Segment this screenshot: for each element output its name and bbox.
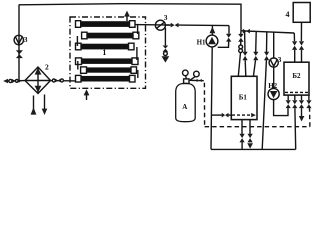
pump H1 [206,35,218,47]
wire radiator outlet to pump line [135,24,171,27]
radiator section bar 6 [76,75,136,82]
tank B1 [231,76,257,119]
wire B1 left drain [212,114,222,116]
valve 3 (circle valve above H2) [269,58,278,67]
tank B2 [284,62,309,95]
air arrow above radiator [124,11,130,21]
drain branch under indicator 3 [162,28,170,63]
radiator section bar 3 [76,43,135,50]
box 4 (condenser) [293,3,310,23]
cylinder regulator [183,70,204,83]
tank B2 right drain into chamber [306,95,311,108]
valve (B2 bottom left) [286,100,291,108]
chamber (dashed enclosure) [204,83,310,127]
node junction at riser and filter line [18,80,21,83]
radiator 1 enclosure (dash-dot box) [70,17,146,88]
coupling (right of filter: circle-bowtie-circle) [51,79,77,83]
wire bottom main line [211,148,296,150]
wire distribution header [241,31,294,33]
wire valve to bypass corner [179,24,230,27]
svg-text:3: 3 [164,13,168,22]
valve (header bowtie) [243,29,250,34]
pump H2 [268,88,279,99]
wire left riser [18,5,20,82]
radiator section bar 2 [82,32,139,39]
valve (B1 left drain bowtie) [222,113,229,118]
air flow arrows under filter [31,95,48,116]
wire pump H2 to tank B2 bottom [274,100,288,116]
wire indicator to valve [165,24,170,26]
coupling (left disconnect: arrow and circles) [3,79,18,84]
wire top header line [19,4,241,31]
wire left horizontal to filter [6,80,25,82]
svg-text:Б2: Б2 [292,72,301,80]
svg-text:3: 3 [24,35,28,44]
valve 3 (left circle valve) [14,35,23,44]
svg-text:Н1: Н1 [197,39,206,47]
valve (vertical bowtie under valve 3) [16,50,23,58]
filter/dryer 2 (diamond) [25,67,51,94]
wire B2 top inlet from header [292,33,297,62]
tank B2 vent with arrow [299,95,305,121]
valve (horizontal bowtie) [171,23,179,28]
wire pump H1 discharge down [211,47,212,149]
wire box 4 to B2 [299,22,304,62]
svg-text:4: 4 [286,10,290,19]
branch to valve 3 and pump H2 [273,32,275,59]
radiator section bar 1 [76,21,136,28]
valve (bypass bowtie) [226,34,231,42]
svg-text:3: 3 [278,55,282,64]
pump H1 suction arrow [210,25,216,35]
svg-text:А: А [182,103,187,111]
line B to tank B1 [243,31,248,76]
radiator section bar 5 [81,67,137,73]
svg-text:2: 2 [45,63,49,72]
tank B1 internal suction (dashed with arrow) [232,114,251,116]
wire pump H1 bypass [228,26,230,34]
air arrow below radiator [84,89,90,100]
line A to tank B1 (valve + couplings) [238,31,243,76]
radiator section bar 4 [76,58,139,65]
tank B1 bottom drain 1 [240,120,245,150]
flow indicator 3 (circle with slash) [155,20,165,30]
svg-text:Б1: Б1 [239,93,248,101]
tank B1 bottom drain 2 (with arrow) [247,120,253,149]
svg-text:1: 1 [102,48,106,57]
line D to bottom main [262,32,269,149]
gas cylinder A [176,83,196,121]
radiator U-bend links [77,25,137,79]
line C to tank B1 [253,32,258,77]
tank B2 bottom drain to bottom main [292,95,297,149]
